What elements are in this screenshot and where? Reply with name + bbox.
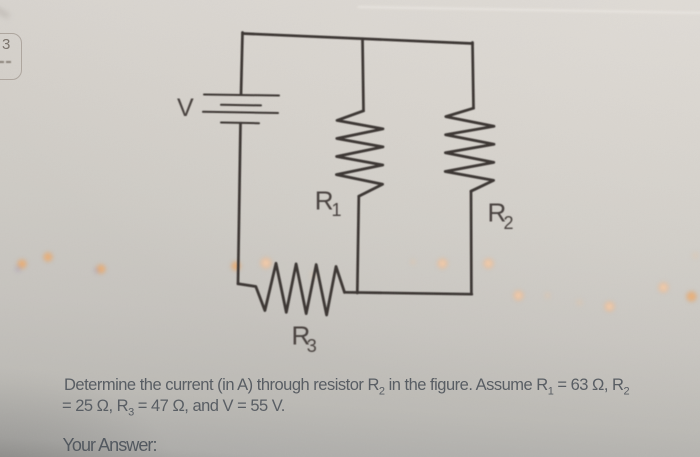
battery V plate long top	[204, 95, 279, 96]
wire: top-left drop to battery	[241, 33, 243, 95]
faint white streak top right	[358, 6, 700, 14]
wire: R2 bottom branch	[470, 191, 473, 294]
wire: R1 bottom branch	[357, 196, 359, 293]
wire: top rail from battery top to R2 top	[243, 34, 473, 44]
resistor R3 zigzag	[238, 263, 345, 315]
card dash 2	[6, 61, 11, 63]
wire: bottom rail from R3 to bottom-right corner	[345, 292, 472, 294]
card dash 1	[0, 61, 4, 63]
battery short plate 4	[221, 122, 259, 125]
your answer label	[63, 435, 157, 456]
wire: R1 top branch	[363, 39, 364, 111]
faint dark smudge top-left corner	[0, 6, 10, 18]
battery long plate 3	[203, 112, 278, 113]
resistor R2 zigzag	[445, 108, 494, 191]
question text line 2	[62, 397, 285, 418]
bokeh dots	[17, 259, 27, 269]
resistor R1 zigzag	[336, 111, 383, 196]
wire: battery bottom to lower-left corner	[238, 123, 241, 284]
question text line 1	[64, 376, 629, 397]
wire: R2 top branch	[473, 43, 474, 109]
question card edge top-left	[0, 33, 22, 80]
battery short plate 2	[221, 104, 261, 107]
card number 3	[2, 36, 10, 53]
